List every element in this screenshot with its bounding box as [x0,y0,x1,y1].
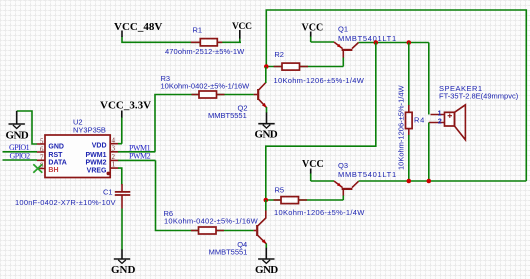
svg-text:Q3: Q3 [338,161,348,170]
transistor Q2 [208,83,267,120]
junction speaker pin 2 column [427,179,432,184]
svg-text:FT-35T-2.8E(49mmpvc): FT-35T-2.8E(49mmpvc) [439,91,519,100]
junction R4 bottom [407,179,412,184]
svg-text:BH: BH [48,167,58,174]
svg-text:GND: GND [255,128,278,140]
wire cross path Q1 collector to R5 row [266,43,376,201]
svg-text:VCC: VCC [232,22,252,32]
svg-text:10Kohm-1206-±5%-1/4W: 10Kohm-1206-±5%-1/4W [274,76,365,85]
wire R5 row [266,199,344,201]
svg-text:2: 2 [438,118,442,125]
power flag VCC (Q1) [302,23,324,42]
wire Q3 collector row to loop [359,180,527,182]
svg-text:PWM1: PWM1 [86,152,107,159]
power flag VCC (Q3) [302,159,324,181]
svg-text:VCC: VCC [302,159,324,170]
svg-text:GPIO2: GPIO2 [10,152,31,161]
wire Q3 base down to R5 [342,196,344,201]
wire speaker pin 2 down [428,123,430,182]
svg-text:GND: GND [255,264,278,276]
resistor R2 [274,50,365,85]
no-connect X on pin BH [33,164,42,173]
wire Q2 emitter to ground [266,107,268,124]
resistor R5 [274,185,366,217]
svg-text:10Kohm-1206-±5%-1/4W: 10Kohm-1206-±5%-1/4W [274,208,365,217]
transistor Q4 [209,210,267,256]
resistor R6 [164,209,259,234]
svg-text:MMBT5551: MMBT5551 [208,111,247,120]
wire PWM1 vertical to R3 row [155,95,254,152]
svg-text:GND: GND [6,129,29,141]
transistor Q1 [334,25,397,59]
wire C1 to ground [121,209,123,260]
svg-text:MMBT5551: MMBT5551 [209,247,248,256]
svg-text:GND: GND [111,264,136,276]
svg-text:VDD: VDD [92,143,107,150]
svg-text:R2: R2 [274,50,284,59]
ground under Q4 [255,259,278,276]
svg-text:RST: RST [48,152,63,159]
svg-text:10Kohm-0402-±5%-1/16W: 10Kohm-0402-±5%-1/16W [164,216,259,225]
svg-text:GND: GND [48,143,64,150]
resistor R4 [397,43,426,182]
power flag VCC_48V [114,21,162,37]
svg-text:R1: R1 [193,26,203,35]
svg-text:DATA: DATA [48,159,66,166]
svg-text:100nF-0402-X7R-±10%-10V: 100nF-0402-X7R-±10%-10V [15,198,116,207]
net label GPIO2 [10,152,31,161]
ground top-left [6,111,29,141]
svg-text:MMBT5401LT1: MMBT5401LT1 [338,170,397,179]
wire Q4 emitter to ground [265,244,267,260]
IC U2 NY3P35B [37,117,119,177]
junction Q1 collector / R4 top [407,40,412,45]
wire Q2 collector up to junction [265,67,267,83]
ground under C1 [111,259,136,276]
wire port GPIO1 to pin 6 [3,151,38,153]
svg-text:VREG: VREG [87,168,107,175]
junction at R2 left [264,64,269,69]
svg-text:470ohm-2512-±5%-1W: 470ohm-2512-±5%-1W [165,47,245,56]
ground under Q2 [255,124,278,141]
wire Q4 collector up to junction [265,200,267,211]
resistor R3 [161,74,251,98]
wire VCC_3.3V to pin 4 [118,118,122,144]
capacitor C1 [15,184,130,209]
junction Q1 collector / cross wire [374,40,379,45]
resistor R1 [165,26,245,56]
svg-text:NY3P35B: NY3P35B [73,126,106,135]
svg-text:10Kohm-0402-±5%-1/16W: 10Kohm-0402-±5%-1/16W [161,82,251,91]
net label PWM2 [129,151,151,160]
wire GND to pin 5 [17,111,37,144]
svg-text:PWM2: PWM2 [129,151,151,160]
net label GPIO1 [9,143,30,152]
wire pin 1 down to C1 [118,168,122,184]
svg-text:VCC_48V: VCC_48V [114,21,162,33]
svg-text:10Kohm-1206-±5%-1/4W: 10Kohm-1206-±5%-1/4W [397,85,406,170]
wire Q1 base down to R2 [342,58,344,67]
wire collector down to speaker pin 1 [428,43,430,115]
svg-text:C1: C1 [103,187,113,196]
svg-text:VCC_3.3V: VCC_3.3V [100,100,151,112]
net label PWM1 [129,144,151,153]
wire PWM2 vertical to R6 row [156,160,254,230]
power flag VCC (right of R1) [232,22,252,42]
wire VCC_48V to R1 row [122,37,241,43]
wire pin 2 to PWM2 [118,159,156,161]
transistor Q3 [334,161,397,196]
wire VCC to Q1 emitter [311,41,334,43]
svg-text:PWM2: PWM2 [86,159,107,166]
wire Q1 collector row [359,42,429,44]
svg-text:R4: R4 [414,116,425,125]
wire top loop [266,10,526,181]
svg-text:1: 1 [438,110,442,117]
speaker SPEAKER1 [429,84,519,140]
svg-text:Q1: Q1 [338,25,348,34]
power flag VCC_3.3V [100,100,151,118]
svg-text:R5: R5 [275,185,285,194]
svg-text:MMBT5401LT1: MMBT5401LT1 [338,34,397,43]
junction at R5 left [264,198,269,203]
wire R2 row [266,66,343,68]
svg-text:VCC: VCC [302,23,324,34]
wire port GPIO2 to pin 7 [3,159,38,161]
wire VCC to Q3 emitter [311,180,334,182]
wire pin 3 to PWM1 [118,151,155,153]
